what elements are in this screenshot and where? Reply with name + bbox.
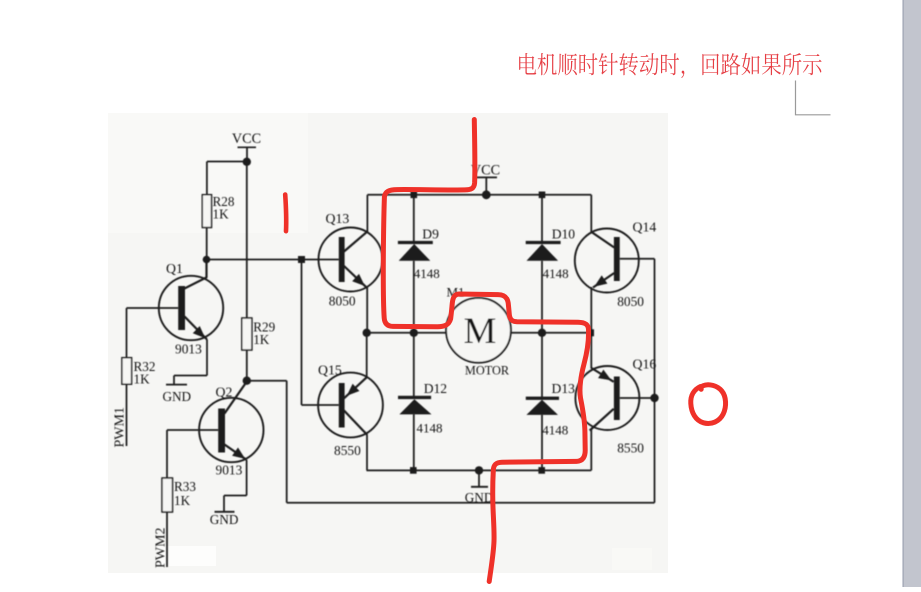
wire mid rail right [511, 332, 592, 334]
wire top rail corner to Q14 collector [590, 195, 592, 233]
svg-text:1K: 1K [134, 371, 151, 386]
wire base rail Q1 collector to Q13 base [207, 259, 339, 261]
node: D12 bottom (square) [410, 467, 417, 474]
node: D9/D12 mid junction [410, 329, 418, 337]
wire Q15 collector drop [366, 435, 368, 470]
node: Q16 base / right riser junction [650, 394, 658, 402]
wire Q16 collector drop [590, 430, 592, 470]
svg-text:8050: 8050 [617, 294, 644, 309]
svg-text:D12: D12 [424, 381, 448, 396]
wire bottom outer run [287, 502, 655, 504]
wire R29 to Q2 collector node [246, 350, 248, 381]
svg-text:9013: 9013 [175, 342, 202, 357]
wire Q15 base [302, 404, 339, 406]
wire VCC to R28 branch [207, 161, 247, 163]
svg-text:8550: 8550 [334, 443, 361, 458]
wire Q13 emitter drop [366, 288, 368, 333]
svg-text:8550: 8550 [617, 441, 644, 456]
ground symbol (Q1 emitter) [166, 384, 187, 386]
svg-text:GND: GND [465, 490, 494, 505]
wire Q14 emitter drop [590, 287, 592, 333]
transistor Q14 (NPN 8050, mirrored) [575, 229, 639, 293]
wire Q1 base [127, 307, 179, 309]
svg-text:1K: 1K [213, 207, 230, 222]
resistor R32 [122, 358, 132, 385]
ground symbol (Q2 emitter) [215, 511, 235, 513]
svg-text:MOTOR: MOTOR [465, 363, 510, 377]
wire bottom rail [367, 469, 592, 471]
wire mid rail left [367, 332, 447, 334]
diode D13 (4148) [526, 333, 559, 471]
node: D9 top (square) [411, 192, 418, 199]
wire Q14 base [620, 258, 655, 260]
transistor Q1 (NPN 9013) [159, 260, 223, 341]
wire R32 to PWM1 stub [126, 384, 128, 446]
wire right outer riser to Q14/Q16 bases [654, 259, 656, 503]
resistor R28 [202, 195, 211, 228]
diode D12 (4148) [398, 333, 432, 471]
node: D13 bottom (square) [538, 467, 545, 474]
wire Q1 emitter to ground [206, 340, 208, 376]
svg-text:8050: 8050 [329, 293, 356, 308]
svg-text:4148: 4148 [543, 266, 569, 281]
browser scrollbar at right edge [903, 0, 921, 587]
transistor Q13 (NPN 8050) [319, 228, 383, 292]
red handwritten Chinese annotation text 电机顺时针转动时，回路如果所示 [519, 53, 821, 78]
transistor Q15 (PNP 8550) [318, 373, 383, 438]
svg-text:GND: GND [163, 389, 192, 404]
svg-text:GND: GND [210, 512, 239, 527]
svg-text:Q15: Q15 [318, 363, 342, 378]
transistor Q16 (PNP 8550, mirrored) [575, 366, 639, 431]
node: D10/D13 mid junction [538, 329, 546, 337]
resistor R33 [162, 478, 173, 512]
diode D10 (4148) [526, 195, 561, 333]
svg-text:PWM2: PWM2 [154, 528, 169, 568]
svg-text:4148: 4148 [417, 421, 443, 436]
svg-text:Q14: Q14 [633, 220, 657, 235]
wire Q2 collector node right [247, 380, 287, 382]
wire Q1 base down to R32 [126, 308, 128, 358]
wire down left outer [286, 381, 288, 503]
power symbol VCC (H-bridge top) [471, 163, 500, 195]
wire R33 to PWM2 stub [166, 512, 168, 567]
svg-text:D13: D13 [552, 381, 576, 396]
diode D9 (4148) [398, 195, 433, 333]
wire Q2 base down to R33 [166, 430, 168, 478]
wire R28 to Q1 collector node [206, 228, 208, 260]
node: D10 top (square) [539, 192, 546, 199]
svg-text:D9: D9 [422, 226, 439, 241]
svg-text:VCC: VCC [232, 131, 261, 147]
wire VCC down to R29 [246, 162, 248, 318]
resistor R29 [242, 318, 252, 350]
red marker circled "0" mark [691, 385, 726, 424]
wire Q2 emitter to ground [246, 460, 248, 496]
red marker stroke "1" tick [283, 195, 289, 232]
transistor Q2 (NPN 9013) [199, 382, 263, 463]
gray L-shaped callout corner mark [796, 81, 831, 115]
svg-text:Q13: Q13 [326, 211, 350, 226]
node: VCC junction left [243, 158, 251, 166]
svg-text:1K: 1K [253, 332, 270, 347]
power symbol VCC (left, above R28) [232, 131, 261, 162]
svg-text:9013: 9013 [216, 462, 243, 477]
svg-text:PWM1: PWM1 [113, 407, 128, 447]
motor M1 [446, 298, 511, 363]
node: GND tap on bottom rail [475, 466, 483, 474]
svg-text:Q2: Q2 [216, 385, 233, 400]
node: Q13/Q15 emitter junction [363, 329, 371, 337]
wire Q13 collector riser [366, 195, 368, 232]
wire Q16 base [620, 397, 655, 399]
wire Q2 base [167, 429, 218, 431]
node: tap to Q15 base (square junction) [298, 256, 305, 263]
svg-text:4148: 4148 [542, 423, 568, 438]
wire top rail [367, 194, 591, 196]
svg-text:D10: D10 [552, 226, 576, 241]
svg-text:Q16: Q16 [633, 356, 657, 371]
svg-text:1K: 1K [174, 493, 191, 508]
node: Q1 collector / base rail junction [203, 256, 211, 264]
node: Q2 collector junction [243, 377, 251, 385]
wire Q15 emitter riser [366, 333, 368, 378]
node: Q14/Q16 emitter junction (square) [587, 329, 594, 336]
wire Q13/Q15 base link [301, 260, 303, 406]
svg-text:M: M [464, 311, 497, 352]
svg-text:4148: 4148 [414, 266, 440, 281]
svg-text:Q1: Q1 [166, 261, 183, 276]
wire Q16 emitter riser [590, 333, 592, 369]
red marker traced current loop path [383, 120, 588, 582]
ground symbol (H-bridge) [478, 470, 480, 486]
node: VCC on top rail [482, 190, 491, 199]
